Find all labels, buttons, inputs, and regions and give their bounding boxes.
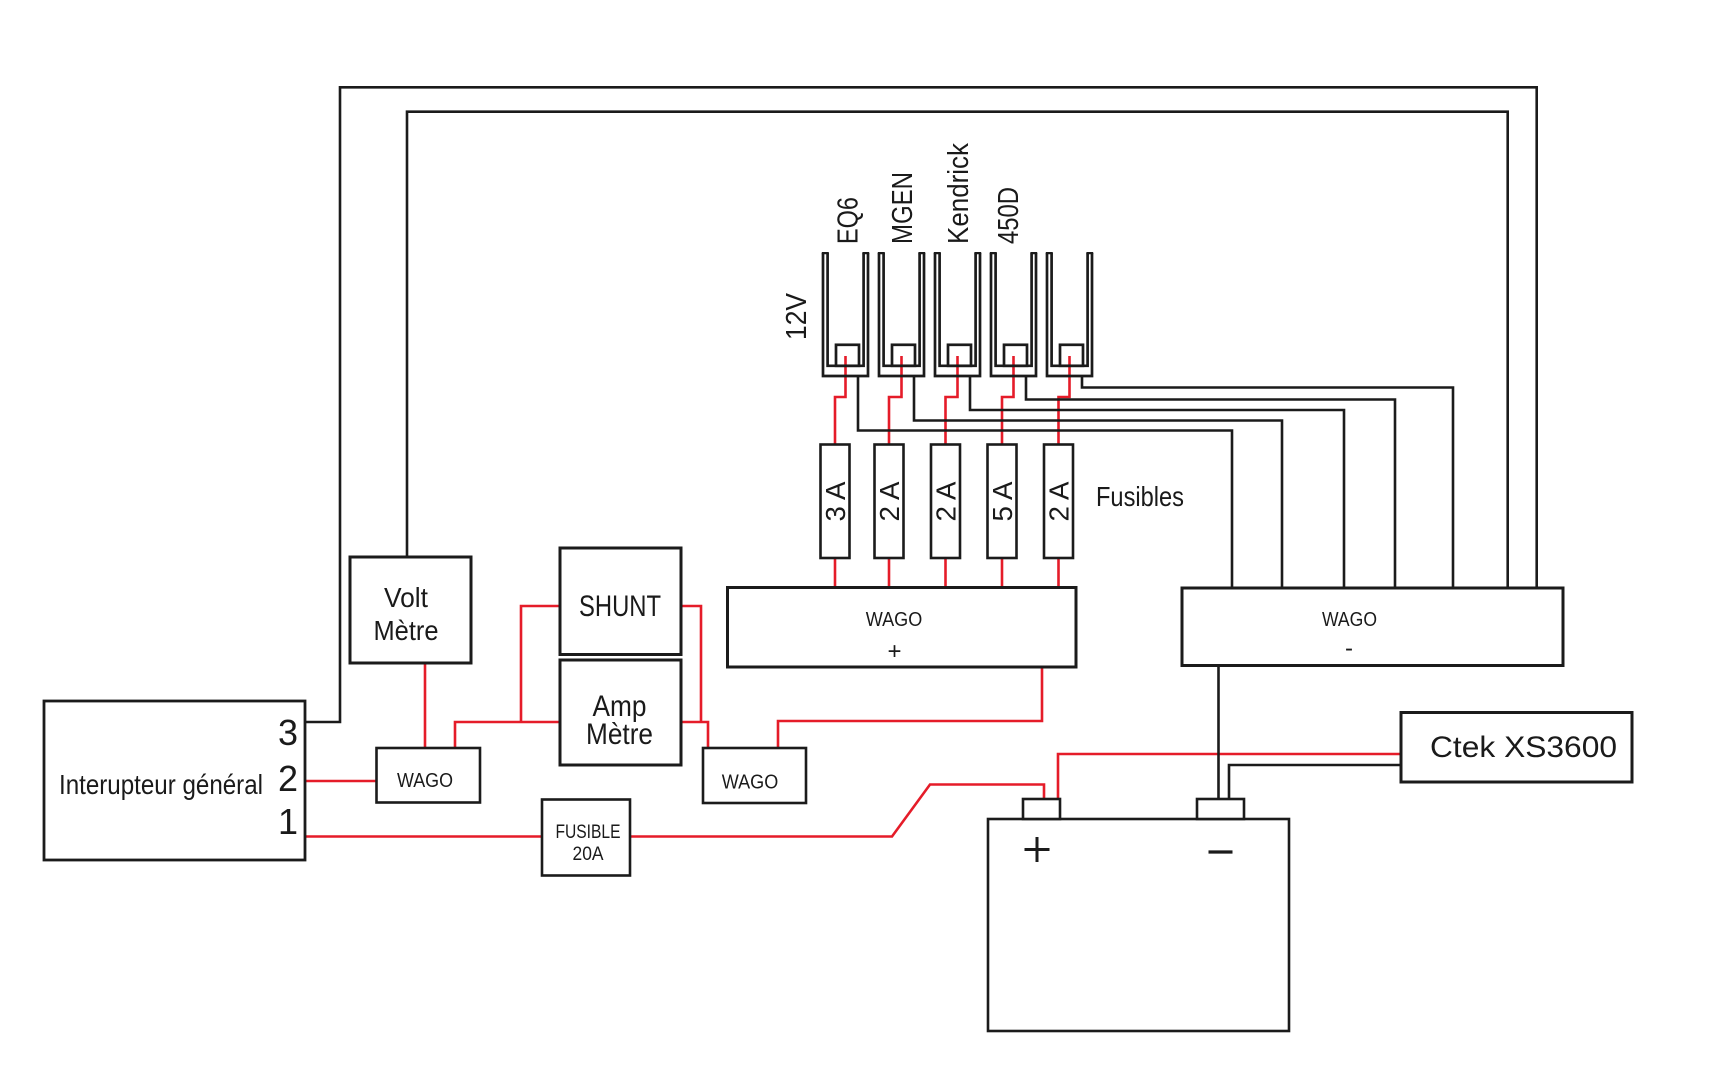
wire red: fuse F4 to WAGO + <box>1001 558 1004 589</box>
svg-text:SHUNT: SHUNT <box>579 590 661 623</box>
svg-text:Mètre: Mètre <box>374 615 439 646</box>
wire black: Volt Metre inner loop to WAGO minus <box>407 112 1508 589</box>
fuse F1 3A <box>820 445 851 559</box>
wire red: WAGO left to Amp Metre <box>455 722 559 749</box>
svg-text:FUSIBLE: FUSIBLE <box>556 822 621 843</box>
WAGO plus bus block <box>728 588 1077 668</box>
battery box <box>988 819 1289 1031</box>
svg-text:WAGO: WAGO <box>1322 608 1377 631</box>
svg-text:-: - <box>1345 635 1353 662</box>
wire red: WAGO + bottom to WAGO middle <box>778 666 1042 749</box>
wire red: terminal 1 to FUSIBLE 20A <box>306 835 542 838</box>
wire black: connector J3 sleeve to WAGO minus <box>970 375 1344 589</box>
svg-text:3 A: 3 A <box>820 481 851 521</box>
svg-text:+: + <box>887 638 901 665</box>
fuse F4 5A <box>987 445 1018 559</box>
battery plus sign <box>1025 837 1050 862</box>
shunt box <box>560 548 681 655</box>
fuse F3 2A <box>931 445 962 559</box>
wire red: connector J5 pin to fuse F5 <box>1059 356 1070 445</box>
wire red: SHUNT right to junction <box>681 606 701 722</box>
svg-text:2 A: 2 A <box>874 481 905 521</box>
wire red: junction to SHUNT left <box>521 606 559 722</box>
svg-text:2: 2 <box>278 758 298 799</box>
fuse F5 2A <box>1044 445 1075 559</box>
wire red: Amp Metre right to WAGO middle <box>681 722 708 749</box>
connector J1 socket <box>822 253 869 376</box>
svg-text:2 A: 2 A <box>931 481 962 521</box>
wire black: connector J2 sleeve to WAGO minus <box>914 375 1282 589</box>
switch box: Interupteur general <box>44 701 305 860</box>
svg-text:WAGO: WAGO <box>397 769 453 792</box>
svg-text:Volt: Volt <box>384 582 428 613</box>
fuse F2 2A <box>874 445 905 559</box>
svg-text:5 A: 5 A <box>987 481 1018 521</box>
svg-text:WAGO: WAGO <box>866 608 923 631</box>
wire red: connector J2 pin to fuse F2 <box>889 356 902 445</box>
wire red: connector J4 pin to fuse F4 <box>1002 356 1014 445</box>
wire red: Volt Metre to WAGO left <box>424 663 427 748</box>
svg-text:2 A: 2 A <box>1044 481 1075 521</box>
wire red: connector J1 pin to fuse F1 <box>835 356 846 445</box>
wire red: connector J3 pin to fuse F3 <box>946 356 958 445</box>
wire red: fuse F1 to WAGO + <box>834 558 837 589</box>
svg-text:WAGO: WAGO <box>722 771 779 794</box>
WAGO left connector block <box>377 748 481 803</box>
svg-text:EQ6: EQ6 <box>833 197 865 244</box>
battery minus sign <box>1209 850 1233 853</box>
wire black: terminal 3 outer loop to WAGO minus <box>306 87 1537 722</box>
wire black: connector J1 sleeve to WAGO minus <box>858 375 1232 589</box>
battery minus terminal tab <box>1197 799 1244 819</box>
WAGO middle connector block <box>703 748 806 803</box>
svg-text:12V: 12V <box>781 292 813 340</box>
wire black: connector J5 sleeve to WAGO minus <box>1082 375 1453 589</box>
svg-text:Kendrick: Kendrick <box>943 143 975 244</box>
svg-text:Mètre: Mètre <box>586 718 653 751</box>
battery plus terminal tab <box>1023 799 1060 819</box>
svg-text:3: 3 <box>278 712 298 753</box>
connector J4 socket <box>990 253 1037 376</box>
connector J2 socket <box>878 253 925 376</box>
svg-text:Ctek XS3600: Ctek XS3600 <box>1430 731 1617 764</box>
svg-text:MGEN: MGEN <box>887 172 919 244</box>
connector J3 socket <box>934 253 981 376</box>
connector J5 socket <box>1046 253 1093 376</box>
wire red: fuse F3 to WAGO + <box>944 558 947 589</box>
wire red: terminal 2 to WAGO left <box>306 780 376 783</box>
svg-text:20A: 20A <box>573 844 604 865</box>
wire red: fuse F2 to WAGO + <box>888 558 891 589</box>
wire red: Ctek charger to battery + <box>1058 754 1401 800</box>
svg-text:1: 1 <box>278 801 298 842</box>
svg-text:450D: 450D <box>993 187 1025 244</box>
wire black: WAGO minus to battery minus <box>1217 665 1220 800</box>
Ctek charger box <box>1401 713 1632 783</box>
wire black: connector J4 sleeve to WAGO minus <box>1026 375 1395 589</box>
svg-text:Interupteur général: Interupteur général <box>59 769 263 800</box>
svg-text:Fusibles: Fusibles <box>1096 481 1184 512</box>
fuse box FUSIBLE 20A <box>542 800 630 876</box>
wire red: FUSIBLE 20A to battery + <box>630 785 1044 837</box>
wire black: battery minus to Ctek charger <box>1229 765 1401 800</box>
ammeter box <box>560 660 681 765</box>
wire red: fuse F5 to WAGO + <box>1057 558 1060 589</box>
WAGO minus bus block <box>1182 588 1563 666</box>
voltmeter box <box>350 557 471 663</box>
